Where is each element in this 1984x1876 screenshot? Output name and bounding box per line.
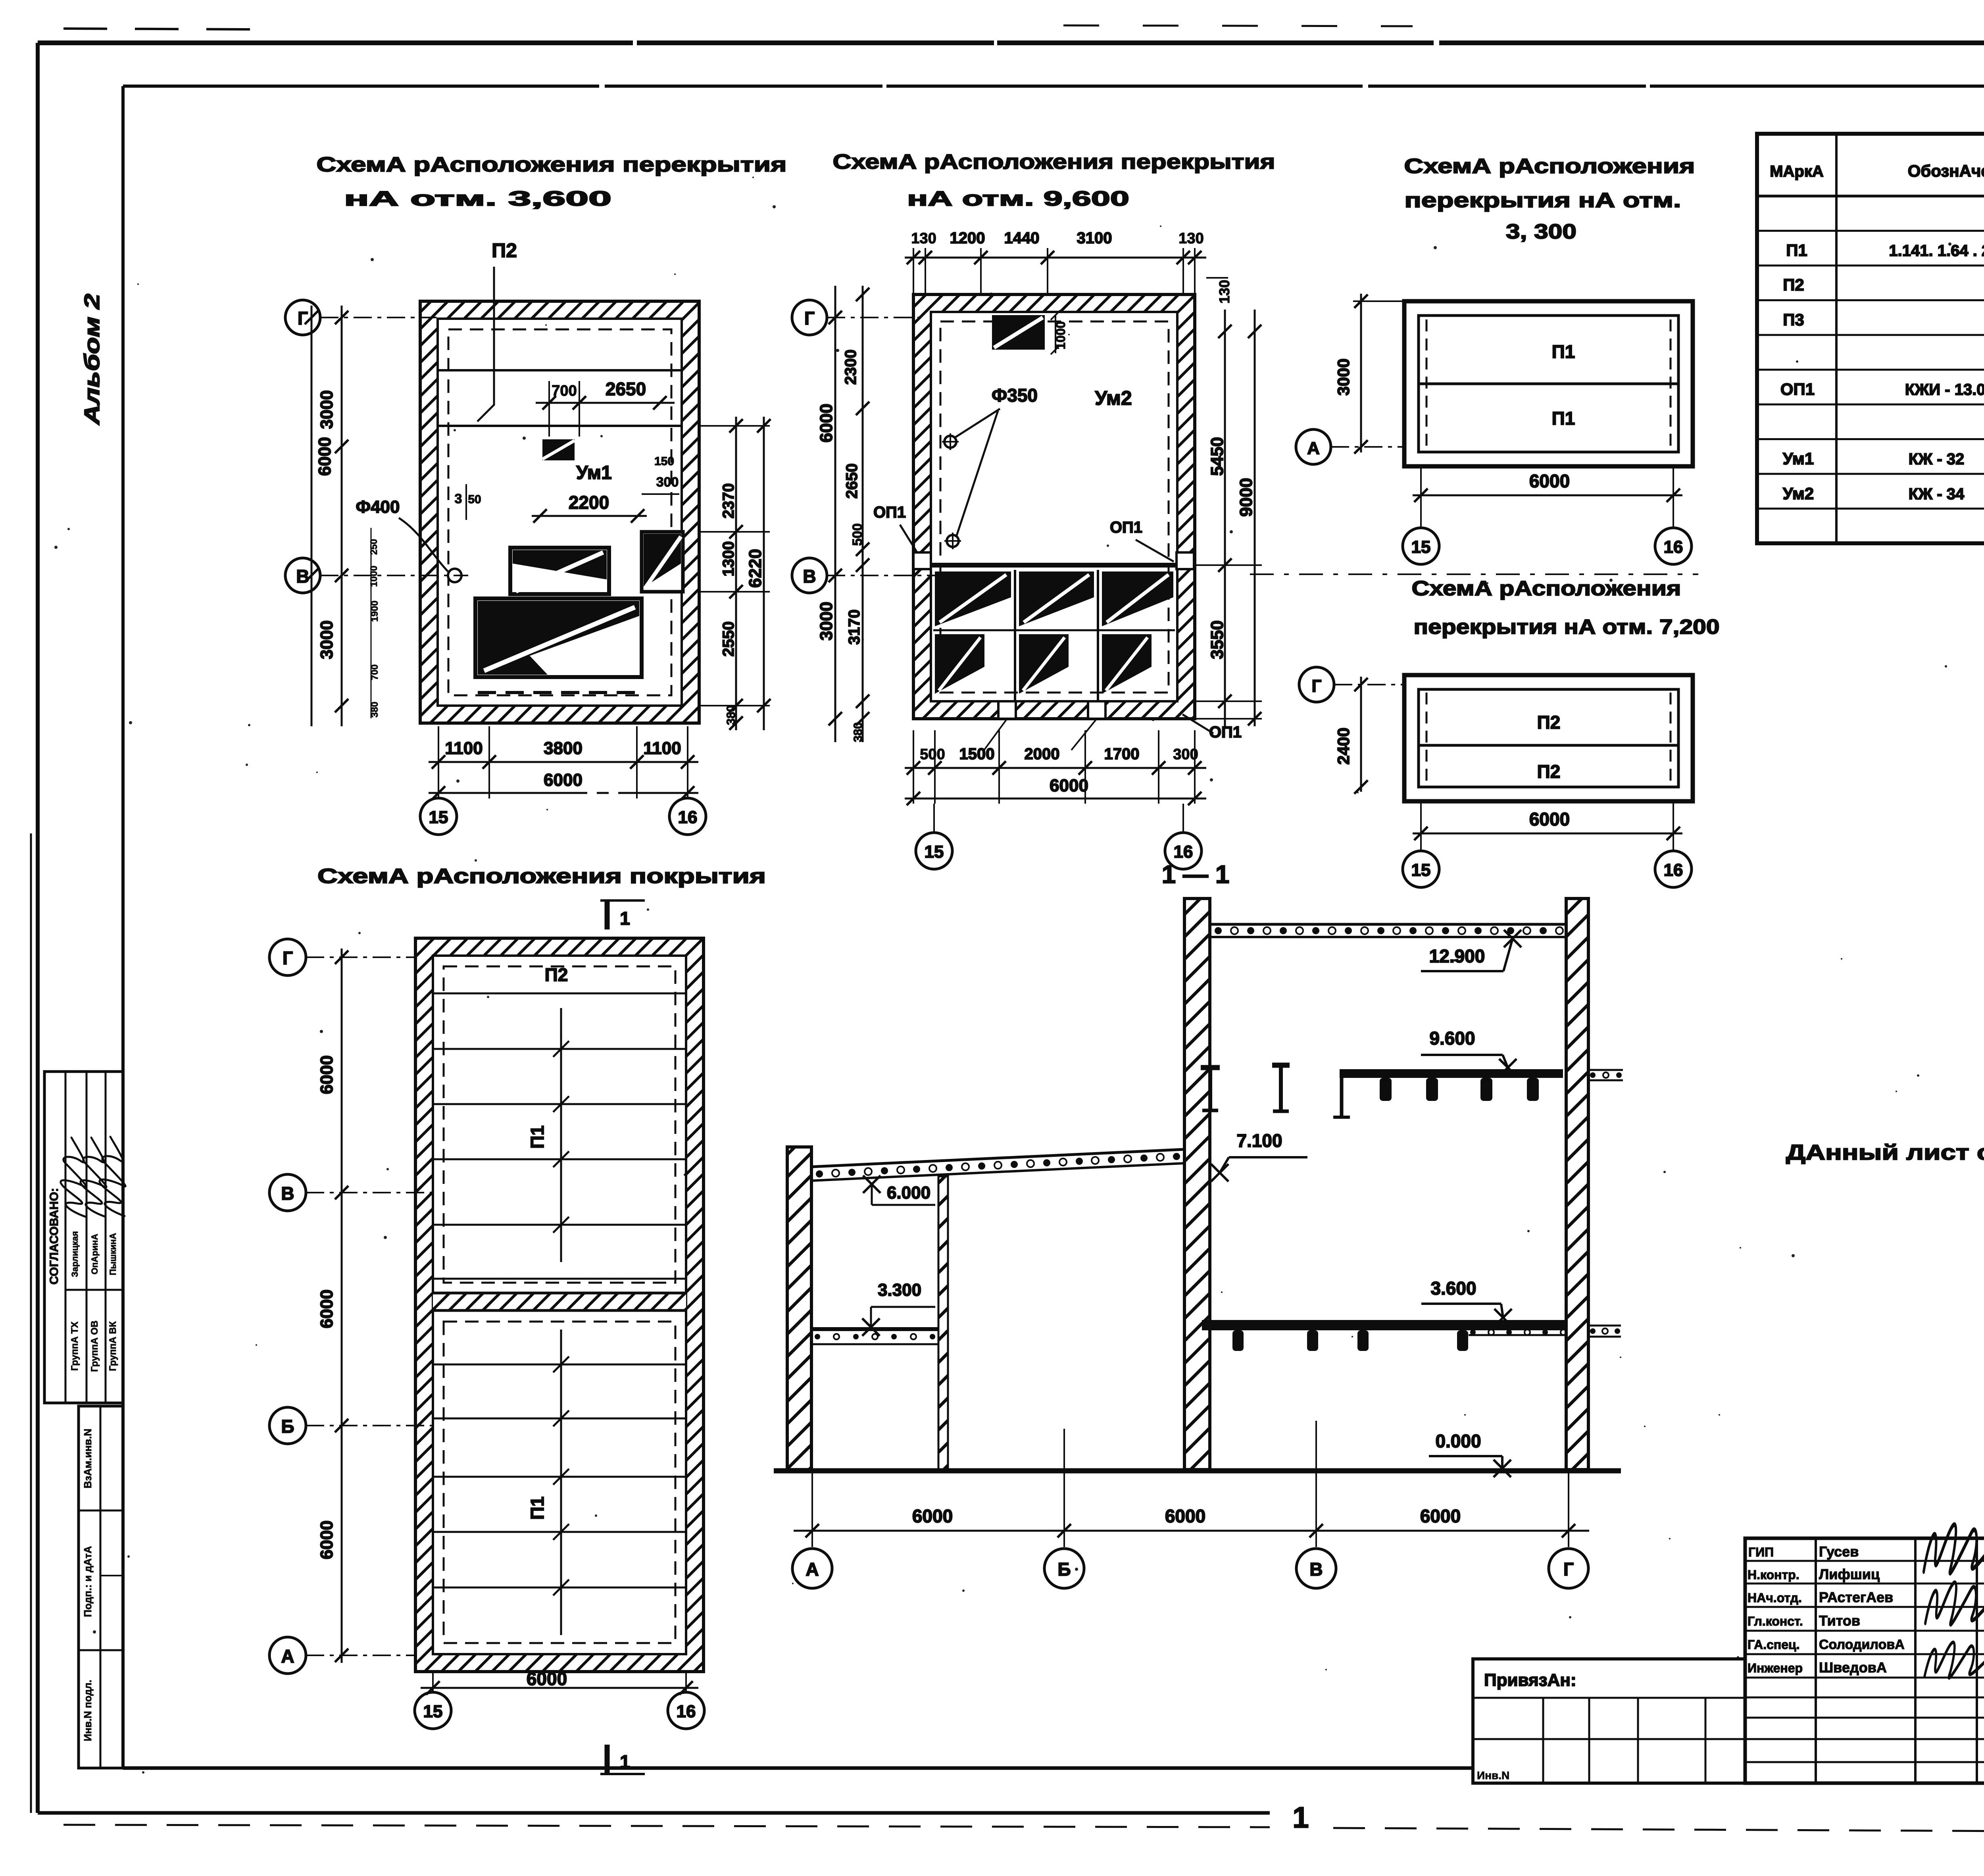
svg-text:Б: Б (1057, 1559, 1071, 1580)
svg-text:6000: 6000 (1050, 776, 1088, 795)
axis circle 15 (plan 3.300) (1403, 528, 1439, 564)
svg-text:6000: 6000 (817, 404, 836, 443)
title block row line (1745, 1761, 1984, 1763)
svg-text:Ф400: Ф400 (356, 497, 400, 517)
svg-text:16: 16 (1664, 537, 1683, 557)
svg-text:ОП1: ОП1 (1110, 519, 1142, 536)
svg-text:КЖ - 34: КЖ - 34 (1909, 485, 1965, 503)
plan 7.200: walls double outline (1404, 675, 1693, 801)
svg-text:КЖ - 32: КЖ - 32 (1909, 450, 1965, 468)
roof plan: dashed slab outline top bay (444, 966, 675, 1283)
svg-text:300: 300 (656, 475, 679, 490)
svg-text:16: 16 (1664, 860, 1683, 880)
svg-text:3800: 3800 (544, 739, 583, 758)
axis circle Г (plan 3.600) (285, 300, 320, 335)
plan 9.600: beam at axis В (931, 563, 1177, 568)
axis circle Г (roof plan) (269, 939, 306, 976)
svg-text:15: 15 (423, 1702, 443, 1721)
svg-text:2300: 2300 (842, 350, 859, 385)
roof plan: hatched walls (415, 938, 704, 1672)
svg-text:РАстегАев: РАстегАев (1819, 1589, 1893, 1605)
svg-text:3000: 3000 (317, 390, 336, 429)
title block row line (1745, 1717, 1984, 1719)
plan 3.600: bottom dashed bold slab line (478, 691, 639, 694)
axis circle Г (plan 7.200) (1299, 667, 1334, 702)
svg-text:ГА.спец.: ГА.спец. (1748, 1637, 1800, 1652)
svg-text:6000: 6000 (1420, 1506, 1461, 1526)
svg-text:3.600: 3.600 (1430, 1278, 1476, 1299)
svg-text:В: В (1309, 1559, 1323, 1580)
svg-text:12.900: 12.900 (1429, 946, 1485, 966)
svg-text:ПривязАн:: ПривязАн: (1484, 1670, 1576, 1690)
roof plan: centre line with ticks bottom bay (560, 1330, 562, 1635)
svg-text:6000: 6000 (317, 1289, 336, 1328)
axis circle 15 (plan 9.600) (916, 833, 952, 869)
plan 9.600: left dimension lines (862, 286, 864, 742)
svg-text:ОП1: ОП1 (1780, 380, 1815, 398)
svg-text:СхемА рАсположения перекрыти: СхемА рАсположения перекрытия (317, 153, 787, 176)
svg-text:1 — 1: 1 — 1 (1162, 860, 1230, 889)
section: steel column 1 at 9.600 (1208, 1068, 1212, 1110)
svg-text:3.300: 3.300 (878, 1280, 921, 1300)
roof plan: middle hatched cross wall (433, 1293, 686, 1310)
svg-text:6000: 6000 (527, 1668, 567, 1689)
svg-text:перекрытия нА отм. 7,200: перекрытия нА отм. 7,200 (1414, 616, 1720, 639)
svg-text:Инв.N подл.: Инв.N подл. (82, 1680, 94, 1741)
plan 3.300: plate joint (1419, 383, 1678, 385)
title block row line (1745, 1653, 1984, 1655)
title block: staff column frame (1745, 1538, 1984, 1783)
svg-text:500: 500 (920, 746, 945, 763)
svg-text:15: 15 (1411, 537, 1431, 557)
plan 9.600: slab dashed outline (940, 321, 1169, 693)
svg-text:Инженер: Инженер (1748, 1661, 1803, 1675)
plan 3.600: left dimension lines (341, 306, 343, 726)
svg-text:П2: П2 (1537, 761, 1561, 782)
section: 9.600 cantilever dots right of wall Г (1588, 1069, 1623, 1071)
plan 9.600: top dimension line (905, 257, 1206, 259)
svg-text:КЖИ - 13.00.0: КЖИ - 13.00.0 (1905, 381, 1984, 398)
table row line (1757, 438, 1984, 440)
svg-text:ОпАринА: ОпАринА (90, 1234, 100, 1275)
svg-text:130: 130 (1216, 280, 1232, 304)
svg-text:Н.контр.: Н.контр. (1748, 1568, 1799, 1582)
svg-text:6000: 6000 (1165, 1506, 1205, 1526)
section: wall axis Б (938, 1176, 948, 1470)
roof plan: left dimension line (341, 949, 343, 1663)
scan speckles (1107, 545, 1109, 547)
svg-text:2370: 2370 (720, 483, 737, 519)
svg-text:ДАнный лист см. совместно: ДАнный лист см. совместно с листАми КЖ 3… (1786, 1141, 1984, 1164)
plan 3.600: monolithic patch Ум1 (small) (542, 439, 575, 460)
svg-text:СОГЛАСОВАНО:: СОГЛАСОВАНО: (48, 1188, 61, 1285)
plan 3.300: left dim 3000 (1360, 294, 1362, 452)
axis circle А (plan 3.300) (1296, 429, 1331, 464)
svg-text:50: 50 (468, 493, 481, 506)
section: bottom dimension line (794, 1530, 1589, 1532)
svg-text:А: А (1307, 439, 1320, 458)
svg-text:Альбом 2: Альбом 2 (80, 294, 104, 426)
plan 9.600: top monolithic patch (992, 315, 1045, 350)
plan 9.600: dim 1000 at patch (1055, 315, 1056, 353)
svg-text:Гл.конст.: Гл.конст. (1748, 1614, 1803, 1628)
title block row line (1745, 1697, 1984, 1699)
svg-text:А: А (806, 1559, 819, 1580)
svg-text:6000: 6000 (912, 1506, 953, 1526)
svg-text:ОП1: ОП1 (873, 504, 906, 521)
svg-text:перекрытия нА отм.: перекрытия нА отм. (1405, 189, 1681, 212)
svg-text:П1: П1 (1552, 408, 1575, 429)
plan 9.600: hole 2 (947, 535, 959, 547)
plan 3.600: opening with monolith (large bottom) (475, 598, 642, 677)
svg-text:15: 15 (429, 808, 448, 827)
svg-text:7.100: 7.100 (1236, 1130, 1282, 1151)
plan 7.200: plate joint (1419, 744, 1678, 747)
plan 3.300: dashed plate edges (1426, 319, 1428, 448)
plan 9.600: hatched walls (913, 294, 1195, 719)
axis circle В (roof plan) (269, 1174, 306, 1211)
svg-text:1500: 1500 (959, 745, 995, 763)
roof plan: section mark 1 bottom (600, 1773, 645, 1775)
svg-text:16: 16 (1174, 842, 1193, 862)
svg-text:380: 380 (725, 705, 738, 725)
svg-text:1440: 1440 (1004, 229, 1040, 247)
plan 9.600: hole 1 (944, 436, 956, 448)
section: floor 3.300 with dots (811, 1327, 938, 1331)
title block row line (1745, 1560, 1984, 1562)
svg-text:Г: Г (283, 948, 293, 968)
table row line (1757, 230, 1984, 232)
table column line (1835, 134, 1838, 543)
svg-text:Инв.N: Инв.N (1477, 1769, 1509, 1782)
svg-text:6000: 6000 (317, 1520, 336, 1559)
svg-text:9000: 9000 (1236, 478, 1256, 517)
axis circle 15 (plan 3.600) (420, 798, 457, 835)
svg-text:ПышкинА: ПышкинА (108, 1233, 118, 1276)
svg-text:9.600: 9.600 (1429, 1028, 1475, 1049)
svg-text:3000: 3000 (817, 602, 836, 641)
svg-text:2200: 2200 (569, 492, 609, 513)
plan 9.600: monolithic wedges row 1 (935, 571, 1011, 626)
svg-text:Лифшиц: Лифшиц (1819, 1566, 1880, 1582)
table header bottom line (1757, 195, 1984, 198)
section: wall axis В (1184, 899, 1210, 1470)
svg-text:2400: 2400 (1334, 727, 1353, 764)
svg-text:ОбознАчение: ОбознАчение (1908, 162, 1984, 180)
axis continuation dash line (1250, 573, 1698, 575)
svg-text:В: В (281, 1183, 294, 1204)
svg-text:1: 1 (1292, 1801, 1309, 1834)
title block row line (1745, 1583, 1984, 1585)
svg-text:1: 1 (620, 908, 630, 929)
axis circle 16 (plan 9.600) (1165, 833, 1202, 869)
svg-text:Г: Г (1563, 1559, 1574, 1580)
svg-text:П1: П1 (1552, 341, 1575, 362)
svg-text:6000: 6000 (544, 770, 583, 790)
axis circle 16 (plan 7.200) (1655, 851, 1692, 887)
svg-text:5450: 5450 (1207, 437, 1227, 476)
axis circle Г (section) (1549, 1549, 1588, 1588)
plan 3.600: dim 2200 (532, 515, 647, 517)
plan 3.600: opening with monolith (right) (642, 532, 683, 592)
axis circle 15 (roof plan) (415, 1692, 451, 1729)
svg-text:Ф350: Ф350 (992, 385, 1038, 406)
bottom margin dashed line (63, 1825, 1270, 1827)
svg-text:Ум2: Ум2 (1095, 387, 1132, 409)
svg-text:3: 3 (455, 491, 462, 506)
svg-text:3000: 3000 (317, 620, 336, 659)
plan 3.600: plate joint line 2 (438, 425, 682, 427)
svg-text:3100: 3100 (1077, 229, 1112, 247)
svg-text:2650: 2650 (843, 464, 861, 499)
title block: привязан section (1473, 1659, 1745, 1783)
svg-text:1: 1 (620, 1751, 630, 1772)
svg-text:нА отм. 3,600: нА отм. 3,600 (344, 187, 611, 210)
table row line (1757, 508, 1984, 510)
svg-text:130: 130 (911, 230, 936, 247)
svg-text:П2: П2 (545, 964, 568, 985)
svg-text:ГруппА ОВ: ГруппА ОВ (89, 1320, 100, 1372)
svg-text:Б: Б (281, 1416, 294, 1437)
svg-text:1300: 1300 (720, 541, 737, 577)
svg-text:МАркА: МАркА (1770, 163, 1824, 180)
approval signatures (61, 1137, 87, 1217)
plan 7.200: bottom dim 6000 (1413, 833, 1682, 835)
svg-text:1000: 1000 (1054, 321, 1068, 349)
svg-text:Титов: Титов (1819, 1612, 1860, 1629)
plan 3.600: hatched walls (420, 301, 699, 723)
table row line (1757, 404, 1984, 406)
svg-text:П1: П1 (527, 1497, 548, 1520)
svg-text:В: В (296, 566, 309, 587)
svg-text:Ум2: Ум2 (1783, 484, 1814, 503)
svg-text:700: 700 (552, 383, 577, 399)
title block row line (1745, 1738, 1984, 1740)
staff signatures scribble (1924, 1525, 1984, 1574)
svg-text:ГИП: ГИП (1748, 1545, 1774, 1559)
section: axis lines below ground (811, 1473, 813, 1547)
outer sheet border (38, 40, 1984, 45)
svg-text:П2: П2 (1783, 275, 1804, 294)
roof plan: plate joints top bay (433, 993, 686, 995)
table row line (1757, 299, 1984, 301)
axis circle Б (roof plan) (269, 1407, 306, 1444)
svg-text:2550: 2550 (720, 621, 737, 657)
svg-text:15: 15 (1411, 860, 1431, 880)
plan 7.200: left dim 2400 (1360, 677, 1362, 792)
section: steel column 2 at 9.600 (1279, 1066, 1283, 1111)
axis circle 16 (plan 3.300) (1655, 528, 1692, 564)
plan 3.600: slab edge dashed outline (448, 329, 671, 695)
svg-text:1.141. 1.64 . 200 -01: 1.141. 1.64 . 200 -01 (1889, 242, 1984, 260)
svg-text:2650: 2650 (606, 379, 646, 399)
svg-text:СхемА рАсположения: СхемА рАсположения (1404, 155, 1695, 178)
svg-text:6000: 6000 (1529, 471, 1570, 491)
axis circle 16 (roof plan) (668, 1692, 704, 1729)
svg-text:1100: 1100 (643, 739, 681, 758)
axis circle В (plan 9.600) (792, 558, 827, 593)
svg-text:0.000: 0.000 (1435, 1431, 1481, 1451)
svg-text:3, 300: 3, 300 (1506, 220, 1576, 243)
svg-text:150: 150 (654, 455, 674, 468)
title block row line (1745, 1677, 1984, 1679)
section: roof slab at 12.900 with dots (1210, 923, 1566, 926)
roof plan: centre line with ticks top bay (560, 1008, 562, 1262)
plan 9.600: bottom dimension lines (905, 767, 1206, 769)
svg-text:П3: П3 (1783, 310, 1804, 329)
svg-text:Ум1: Ум1 (1783, 449, 1814, 468)
svg-text:3550: 3550 (1207, 620, 1227, 659)
svg-text:СхемА рАсположения перекрыти: СхемА рАсположения перекрытия (833, 150, 1275, 173)
svg-text:Подп.: и дАтА: Подп.: и дАтА (82, 1546, 94, 1617)
svg-text:3000: 3000 (1334, 358, 1353, 395)
section: floor at 9.600 (1340, 1069, 1563, 1078)
svg-text:6220: 6220 (746, 549, 765, 588)
svg-text:6000: 6000 (317, 1055, 336, 1094)
table row line (1757, 334, 1984, 336)
table row line (1757, 473, 1984, 475)
svg-text:2000: 2000 (1025, 745, 1060, 763)
table row line (1757, 265, 1984, 267)
roof plan: dashed slab outline bottom bay (444, 1322, 675, 1643)
approval block СОГЛАСОВАНО (44, 1072, 123, 1403)
svg-text:Г: Г (804, 308, 815, 329)
axis circle А (section) (792, 1549, 832, 1588)
axis circle 15 (plan 7.200) (1403, 851, 1439, 887)
axis circle В (plan 3.600) (285, 558, 320, 593)
section: 3.600 cantilever right of wall Г (1588, 1325, 1621, 1327)
plan 7.200: dashed plate edges (1426, 693, 1428, 784)
svg-text:Г: Г (298, 308, 308, 329)
svg-text:ГруппА ВК: ГруппА ВК (108, 1321, 118, 1371)
svg-text:3170: 3170 (846, 610, 863, 645)
svg-text:П1: П1 (1786, 241, 1807, 260)
plan 9.600: right dimension lines (1224, 310, 1226, 726)
axis circle А (roof plan) (269, 1637, 306, 1674)
title block row line (1745, 1606, 1984, 1608)
svg-text:П2: П2 (492, 239, 517, 262)
plan 9.600: monolithic wedges row 2 (935, 634, 984, 694)
section: wall axis Г (1566, 899, 1588, 1470)
plan 9.600: cell divider lines (1014, 570, 1016, 701)
axis circle В (section) (1296, 1549, 1336, 1588)
margin block Взам.инв.N / Подп. и дата / Инв.N подл. (79, 1406, 123, 1768)
svg-text:Зарлицкая: Зарлицкая (70, 1231, 80, 1277)
svg-text:1100: 1100 (445, 739, 483, 758)
plan 3.600: bottom dimension lines (429, 761, 698, 763)
svg-text:Г: Г (1312, 676, 1322, 696)
plan 9.600: bottom wall pads (998, 701, 1016, 719)
svg-text:НАч.отд.: НАч.отд. (1748, 1591, 1802, 1605)
svg-text:6.000: 6.000 (887, 1183, 930, 1203)
plan 3.300: bottom dim 6000 (1413, 494, 1682, 496)
axis circle Г (plan 9.600) (792, 300, 827, 335)
svg-text:16: 16 (677, 1702, 696, 1721)
svg-text:380: 380 (852, 722, 865, 742)
axis circle Б (section) (1044, 1549, 1084, 1588)
title block row line (1745, 1630, 1984, 1632)
section: floor 3.600 with ribs (1202, 1320, 1567, 1330)
svg-text:15: 15 (925, 842, 944, 862)
plan 3.600: right dimension lines (735, 417, 737, 730)
svg-text:П2: П2 (1537, 712, 1561, 733)
roof plan: plate joints bottom bay (433, 1364, 686, 1366)
svg-text:ШведовА: ШведовА (1819, 1659, 1887, 1676)
svg-text:500: 500 (850, 523, 865, 546)
svg-text:Ум1: Ум1 (576, 462, 612, 483)
svg-text:А: А (281, 1646, 294, 1666)
svg-text:1700: 1700 (1104, 745, 1140, 763)
svg-text:1200: 1200 (950, 229, 985, 247)
svg-text:6000: 6000 (1529, 809, 1570, 829)
section: 3.600 dotted strip right part (1469, 1334, 1567, 1336)
svg-text:нА отм. 9,600: нА отм. 9,600 (907, 187, 1129, 210)
inner drawing frame (123, 85, 1984, 88)
svg-text:130: 130 (1178, 230, 1203, 247)
roof plan: bottom dim 6000 (421, 1687, 698, 1689)
table row line (1757, 369, 1984, 371)
plan 3.600: dim 700 / 2650 (536, 402, 675, 404)
plan 3.300: walls double outline (1404, 301, 1693, 466)
components table frame (1757, 134, 1984, 543)
roof plan: section mark 1 top (600, 899, 645, 902)
section: wall axis А (787, 1147, 811, 1470)
svg-text:6000: 6000 (315, 437, 335, 476)
svg-text:Гусев: Гусев (1819, 1543, 1859, 1560)
svg-text:250: 250 (369, 539, 379, 555)
svg-text:СхемА рАсположения покрытия: СхемА рАсположения покрытия (317, 865, 766, 888)
section: sloped roof 7.100 with dots (811, 1149, 1184, 1167)
svg-text:СхемА рАсположения: СхемА рАсположения (1412, 577, 1681, 600)
svg-text:П1: П1 (527, 1126, 548, 1149)
svg-text:ВзАм.инв.N: ВзАм.инв.N (82, 1429, 94, 1489)
svg-text:В: В (803, 566, 816, 587)
svg-text:ГруппА ТХ: ГруппА ТХ (69, 1322, 80, 1371)
section: ground line (774, 1468, 1621, 1474)
svg-text:СолодиловА: СолодиловА (1819, 1637, 1905, 1652)
plan 3.600: plate joint line 1 (438, 369, 682, 371)
axis circle 16 (plan 3.600) (669, 798, 706, 835)
plan 3.600: opening with monolith (middle) (510, 548, 609, 594)
svg-text:16: 16 (678, 808, 698, 827)
